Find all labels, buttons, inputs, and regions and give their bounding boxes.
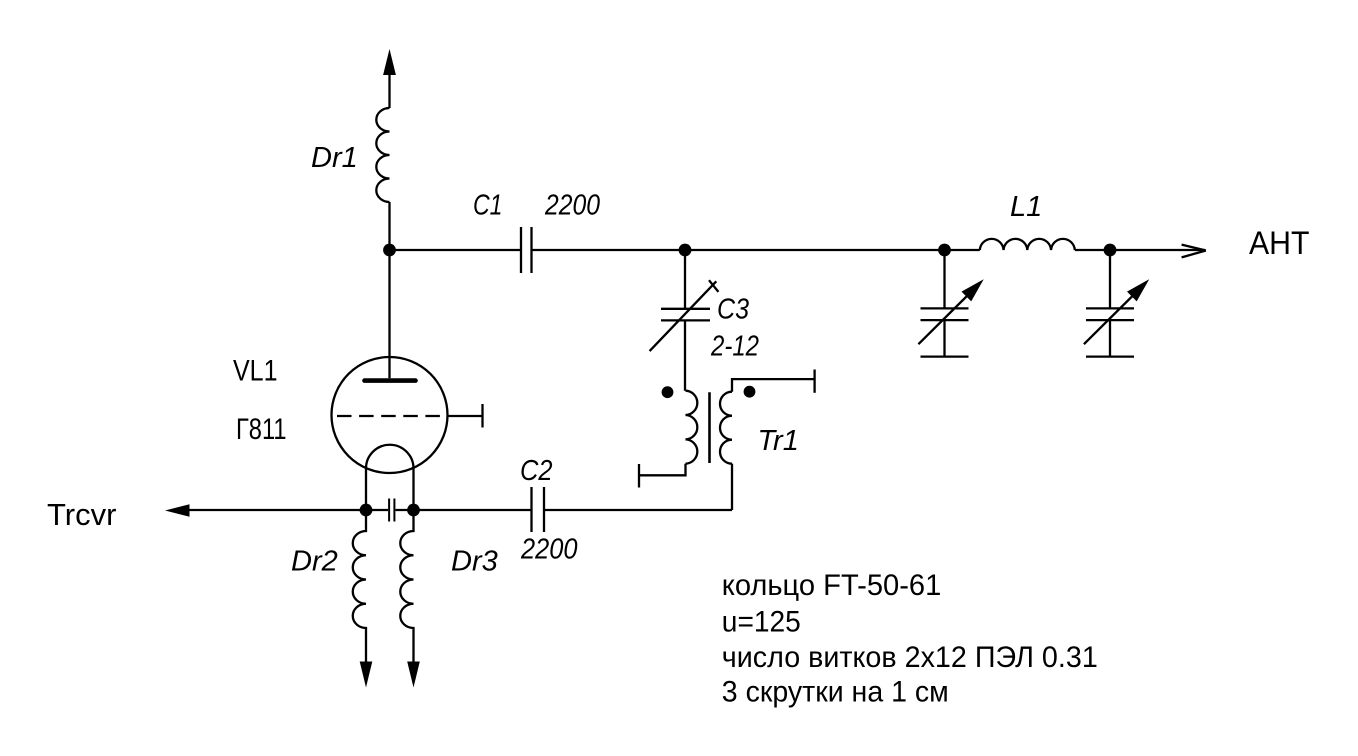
wire top bus right segment [1075, 249, 1205, 251]
svg-text:кольцо FT-50-61: кольцо FT-50-61 [722, 569, 942, 602]
svg-text:2200: 2200 [520, 534, 577, 566]
arrow down (Dr2) [360, 662, 373, 688]
tube VL1 cathode (filament arch) [366, 445, 414, 469]
tube VL1 anode plate [365, 378, 416, 383]
arrow to Trcvr [165, 504, 190, 517]
svg-text:Г811: Г811 [236, 413, 287, 446]
svg-text:2-12: 2-12 [710, 330, 759, 362]
capacitor C3 adjustment diagonal [650, 281, 717, 351]
wire cathode leg left [365, 469, 367, 511]
capacitor C1 [521, 227, 532, 273]
variable capacitor 2 plates [1086, 308, 1134, 320]
wire Tr1 primary bottom lead [639, 464, 686, 476]
variable capacitor 1 plates [921, 308, 969, 320]
tube VL1 envelope [332, 357, 448, 473]
wire tune cap 2 upper lead [1109, 250, 1111, 308]
svg-text:АНТ: АНТ [1249, 225, 1310, 261]
svg-text:C1: C1 [473, 190, 503, 222]
svg-text:C3: C3 [717, 293, 749, 325]
inductor L1 [980, 239, 1075, 250]
terminal bar (Tr1 secondary top) [813, 370, 815, 393]
wire tune cap 1 lower lead [943, 320, 945, 357]
svg-text:L1: L1 [1010, 191, 1042, 223]
wire bottom bus right segment [544, 509, 732, 511]
wire C3 lower lead [684, 320, 686, 390]
variable capacitor 1 arrow shaft [918, 293, 970, 344]
transformer Tr1 phase dot (secondary) [744, 386, 756, 398]
wire C3 upper lead [684, 250, 686, 309]
tube VL1 grid (dashed) [337, 415, 448, 417]
wire anode lead [388, 250, 390, 378]
wire Tr1 secondary bottom lead [731, 464, 733, 510]
supply arrow (Dr1 top) [383, 49, 396, 75]
wire Dr1 upper lead [388, 73, 390, 108]
terminal bar (tune cap 2 bottom) [1086, 355, 1134, 357]
capacitor C2 [532, 487, 545, 532]
junction node (tune cap 1) [938, 244, 951, 257]
svg-text:Trcvr: Trcvr [47, 497, 116, 532]
junction node (anode bus / Dr1) [383, 244, 396, 257]
wire Tr1 secondary top lead [732, 379, 815, 392]
svg-text:Dr1: Dr1 [311, 142, 358, 174]
wire tune cap 2 lower lead [1109, 320, 1111, 357]
svg-text:3 скрутки на 1 см: 3 скрутки на 1 см [722, 676, 949, 709]
choke Dr3 [400, 510, 413, 663]
wire top bus left segment [390, 249, 522, 251]
transformer Tr1 core [708, 392, 711, 463]
junction node (tune cap 2) [1104, 244, 1117, 257]
svg-text:u=125: u=125 [722, 606, 801, 639]
capacitor (cathode feedthrough, small) [389, 499, 394, 522]
transformer Tr1 phase dot (primary) [662, 386, 674, 398]
svg-text:число витков 2x12 ПЭЛ 0.31: число витков 2x12 ПЭЛ 0.31 [722, 641, 1098, 674]
transformer Tr1 secondary winding [720, 392, 732, 464]
wire tune cap 1 upper lead [943, 250, 945, 308]
svg-text:Dr3: Dr3 [451, 546, 498, 578]
wire bottom bus left segment [188, 509, 388, 511]
choke Dr2 [353, 510, 366, 663]
variable capacitor 2 arrowhead [1127, 279, 1149, 301]
variable capacitor 2 arrow shaft [1084, 293, 1136, 344]
svg-text:Dr2: Dr2 [291, 546, 338, 578]
arrow to АНТ (open arrowhead) [1182, 245, 1206, 258]
wire bottom bus middle segment [396, 509, 532, 511]
svg-text:C2: C2 [520, 455, 553, 487]
wire Dr1 lower lead [388, 202, 390, 250]
capacitor C3 (variable) plates [661, 309, 710, 321]
wire cathode leg right [412, 469, 414, 511]
transformer Tr1 primary winding [686, 391, 698, 464]
svg-text:2200: 2200 [544, 190, 600, 222]
terminal bar (Tr1 primary bottom) [638, 464, 640, 488]
wire grid lead [448, 415, 483, 417]
tube VL1 grid terminal bar [481, 404, 483, 428]
terminal bar (tune cap 1 bottom) [921, 355, 969, 357]
capacitor C3 diagonal end bar [709, 280, 718, 292]
junction node (cathode right) [407, 504, 420, 517]
arrow down (Dr3) [407, 662, 420, 688]
junction node (cathode left) [360, 504, 373, 517]
svg-text:Tr1: Tr1 [758, 425, 799, 457]
choke Dr1 [376, 108, 389, 202]
variable capacitor 1 arrowhead [962, 279, 984, 301]
junction node (C3 tap) [679, 244, 692, 257]
wire top bus middle segment [532, 249, 980, 251]
svg-text:VL1: VL1 [233, 355, 278, 388]
